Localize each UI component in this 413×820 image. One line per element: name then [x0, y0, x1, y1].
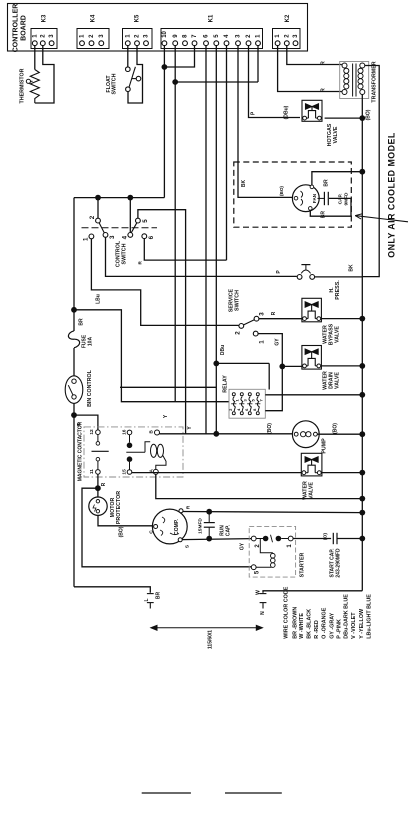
- pump terminal right: [314, 432, 318, 436]
- svg-text:BOARD: BOARD: [21, 15, 28, 41]
- contactor terminal 16: [127, 430, 132, 435]
- svg-text:VALVE: VALVE: [334, 372, 340, 389]
- svg-text:3: 3: [258, 312, 265, 316]
- contactor contact 11-12: [97, 435, 99, 442]
- svg-text:2: 2: [89, 215, 96, 219]
- relay pins and contacts: [232, 393, 235, 396]
- transformer core: [352, 64, 354, 97]
- pump motor body: [292, 421, 319, 448]
- comp windings: [162, 517, 165, 523]
- bin control body: [65, 376, 83, 404]
- wire comp R line: [183, 512, 362, 513]
- node comp R to bus: [359, 510, 365, 516]
- h-press bellows: [301, 270, 310, 273]
- run cap plates: [204, 522, 215, 524]
- svg-text:(O): (O): [323, 533, 329, 540]
- wire K1-1 down: [257, 46, 259, 82]
- svg-text:15: 15: [121, 469, 127, 475]
- wire K2-2 to transformer: [287, 46, 342, 65]
- transformer T1 box: [340, 62, 369, 99]
- float switch contact mid: [136, 76, 141, 81]
- service switch contact 2: [239, 324, 244, 329]
- svg-text:BK -BLACK: BK -BLACK: [307, 609, 313, 639]
- svg-text:5: 5: [142, 219, 149, 223]
- svg-text:4: 4: [121, 235, 128, 239]
- node bypass to bus: [359, 316, 365, 322]
- water drain valve WDV: [302, 346, 322, 370]
- svg-text:BK: BK: [241, 180, 247, 188]
- starter contact dots: [256, 538, 263, 540]
- starter coil: [260, 539, 273, 553]
- wire protector to comp C: [98, 515, 154, 525]
- L terminal break: [147, 593, 154, 595]
- svg-text:N: N: [260, 611, 266, 615]
- svg-text:ONLY AIR COOLED MODEL: ONLY AIR COOLED MODEL: [387, 132, 397, 258]
- svg-text:R: R: [101, 482, 107, 486]
- svg-text:GY: GY: [240, 542, 246, 550]
- wire K1-10 down: [163, 46, 165, 198]
- wire N lead: [263, 591, 362, 593]
- wire to contact 4: [129, 198, 131, 233]
- wire K1-7 jog: [164, 46, 194, 67]
- contactor terminal B: [155, 430, 160, 435]
- right bus from transformer secondary: [361, 95, 363, 591]
- wire relay top right: [268, 363, 270, 389]
- svg-text:(BO): (BO): [332, 423, 338, 434]
- compressor body: [152, 509, 187, 544]
- starter terminal 1: [288, 536, 293, 541]
- wire K1-3 to fan: [238, 46, 294, 198]
- air cooled dashed box: [234, 162, 351, 227]
- run cap leads: [208, 512, 210, 523]
- svg-text:PROTECTOR: PROTECTOR: [116, 491, 122, 524]
- svg-text:10A: 10A: [87, 337, 93, 347]
- power rating arrow: [154, 627, 259, 629]
- footer rule right: [225, 792, 282, 794]
- control switch contact 5: [136, 218, 141, 223]
- wire K3-1 to thermistor: [34, 46, 36, 70]
- svg-text:GY -GRAY: GY -GRAY: [329, 612, 335, 638]
- contactor terminal 15: [127, 470, 132, 475]
- wire L lead: [74, 587, 150, 593]
- svg-text:1: 1: [259, 340, 266, 344]
- wire K5-1 to float switch: [127, 46, 129, 67]
- control switch contact 2: [96, 218, 101, 223]
- svg-text:PUMP: PUMP: [321, 438, 327, 454]
- svg-text:R: R: [271, 311, 277, 315]
- svg-text:THERMISTOR: THERMISTOR: [19, 68, 25, 103]
- svg-text:BR: BR: [155, 592, 161, 600]
- svg-text:K3: K3: [42, 14, 48, 22]
- svg-text:B: B: [149, 430, 155, 434]
- wire K5-2 float loop: [128, 46, 143, 103]
- svg-text:DBu-DARK BLUE: DBu-DARK BLUE: [344, 594, 350, 639]
- wire to contact 2: [97, 198, 99, 219]
- wire hot gas out: [325, 117, 363, 119]
- wire comp S to starter: [182, 539, 251, 540]
- wire service R out: [259, 318, 303, 320]
- control switch blade 2-3: [99, 223, 104, 233]
- svg-text:VALVE: VALVE: [308, 482, 314, 499]
- svg-text:R: R: [320, 61, 326, 65]
- svg-text:CAP.: CAP.: [338, 193, 344, 204]
- wire fan top BR: [312, 172, 362, 185]
- svg-text:(BO): (BO): [365, 109, 371, 120]
- svg-text:BR -BROWN: BR -BROWN: [292, 607, 298, 639]
- svg-text:BIN CONTROL: BIN CONTROL: [87, 369, 93, 407]
- connector K2: [273, 29, 301, 49]
- wire start cap to bus: [337, 538, 362, 540]
- svg-text:RELAY: RELAY: [222, 375, 228, 393]
- svg-text:BR: BR: [321, 211, 327, 219]
- left bus lower: [73, 403, 75, 586]
- wire protector branch left: [82, 488, 251, 567]
- left bus upper: [73, 198, 75, 331]
- comp terminal C: [154, 525, 158, 529]
- wire contact5 branch: [138, 210, 186, 434]
- node B-line pin5: [213, 431, 219, 437]
- svg-text:115/60/1: 115/60/1: [207, 630, 213, 649]
- N terminal break: [260, 593, 267, 595]
- svg-text:TRANSFORMER: TRANSFORMER: [372, 61, 378, 102]
- thermistor R-TH zigzag: [30, 70, 39, 104]
- svg-text:15MFD: 15MFD: [198, 518, 204, 534]
- node pin9 branch: [172, 79, 178, 85]
- svg-text:6: 6: [148, 235, 155, 239]
- svg-text:P -PINK: P -PINK: [337, 619, 343, 639]
- svg-text:(BO): (BO): [267, 423, 273, 434]
- contactor terminal 12: [96, 430, 101, 435]
- node fan top to bus: [359, 169, 365, 175]
- wire pump out: [317, 433, 362, 435]
- node pin10/pin7 junction: [162, 64, 168, 70]
- control switch contact 6: [142, 234, 147, 239]
- node GY branch: [279, 364, 285, 370]
- node relay out to bus: [359, 392, 365, 398]
- svg-text:11: 11: [89, 469, 95, 474]
- bin control blade: [68, 385, 73, 395]
- bin control contact bottom: [72, 395, 76, 399]
- svg-text:(BO): (BO): [118, 526, 124, 537]
- wire coil A to bus: [156, 474, 362, 498]
- h-press contact left: [297, 275, 302, 280]
- wire bin branch to contactor coil: [74, 415, 98, 430]
- svg-text:CONTROLLER: CONTROLLER: [13, 4, 20, 53]
- svg-text:BR: BR: [79, 318, 85, 326]
- svg-text:W -WHITE: W -WHITE: [299, 613, 305, 639]
- svg-text:V -VIOLET: V -VIOLET: [351, 612, 357, 639]
- controller board outline: [8, 4, 308, 52]
- relay feed H1: [120, 386, 216, 388]
- svg-text:K5: K5: [135, 14, 141, 22]
- svg-text:12: 12: [89, 429, 95, 435]
- starter terminal 2: [251, 536, 256, 541]
- wire K1-2 to hot gas valve: [249, 46, 301, 118]
- node control bus right: [127, 195, 133, 201]
- wire pin5 relay branch: [216, 362, 269, 364]
- connector K1: [161, 29, 263, 49]
- wire transformer sec top to right bus: [362, 66, 379, 277]
- start capacitor plates: [332, 533, 334, 544]
- fan terminal bottom: [309, 207, 313, 211]
- svg-text:GY: GY: [274, 338, 280, 346]
- contactor contact 15-16: [129, 435, 131, 443]
- node protector branch: [95, 485, 101, 491]
- svg-text:(BO): (BO): [279, 186, 284, 196]
- svg-text:K2: K2: [285, 14, 291, 22]
- wire K3-2 loop: [35, 46, 54, 103]
- transformer terminals: [342, 63, 347, 68]
- connector K3: [31, 29, 57, 49]
- wire service GY branch: [258, 334, 282, 411]
- water valve WV: [301, 453, 322, 476]
- wire water valve out: [322, 472, 363, 474]
- svg-text:16: 16: [122, 429, 128, 435]
- node control bus left: [95, 195, 101, 201]
- control switch bar: [82, 227, 158, 229]
- svg-text:K1: K1: [209, 14, 215, 22]
- node coil line to bus: [359, 496, 365, 502]
- svg-text:9MFD: 9MFD: [343, 192, 349, 206]
- control switch contact 3: [103, 233, 108, 238]
- wire B to pump BO: [160, 433, 295, 435]
- wire contact1 branch LBu: [91, 239, 238, 326]
- svg-text:(DBu): (DBu): [284, 105, 290, 119]
- control switch contact 4: [128, 233, 133, 238]
- contactor terminal 11: [96, 470, 101, 475]
- svg-text:SWITCH: SWITCH: [112, 73, 118, 94]
- svg-text:243-290MFD: 243-290MFD: [336, 548, 342, 578]
- pump terminal left: [294, 432, 298, 436]
- starter box: [249, 526, 295, 577]
- svg-text:R -RED: R -RED: [314, 620, 320, 639]
- wire 11 to protector: [97, 474, 99, 497]
- svg-text:O -ORANGE: O -ORANGE: [322, 607, 328, 639]
- fan terminal top: [310, 185, 314, 189]
- node pin5 branch: [213, 361, 219, 367]
- service switch contact 1: [253, 331, 258, 336]
- svg-text:2: 2: [234, 331, 241, 335]
- svg-text:5: 5: [251, 399, 256, 402]
- svg-text:CAP.: CAP.: [226, 524, 232, 536]
- node run cap bottom: [206, 536, 212, 542]
- svg-text:C: C: [149, 530, 155, 534]
- magnetic contactor box: [84, 427, 183, 477]
- svg-text:BR: BR: [323, 179, 329, 187]
- control bus wire: [74, 197, 164, 199]
- wire contact6 branch: [144, 239, 226, 261]
- node start cap to bus: [359, 536, 365, 542]
- wire relay right to bus: [265, 394, 362, 396]
- wire drain in: [282, 365, 302, 367]
- float switch contact top: [126, 67, 131, 72]
- svg-text:WIRE COLOR CODE: WIRE COLOR CODE: [284, 586, 290, 639]
- service switch contact 3: [254, 316, 259, 321]
- comp terminal R: [179, 509, 183, 513]
- wire K1-9 down: [174, 46, 176, 402]
- footer rule left: [142, 792, 191, 794]
- bin control contact top: [72, 379, 76, 383]
- node hot gas to bus: [359, 115, 365, 121]
- wire K1-5 down: [215, 46, 217, 434]
- connector K4: [77, 29, 109, 49]
- wire starter 1 to start cap: [293, 538, 331, 540]
- node bin control branch: [71, 412, 77, 418]
- node run cap top: [206, 509, 212, 515]
- svg-text:10: 10: [162, 30, 168, 37]
- svg-text:1: 1: [83, 237, 90, 241]
- svg-text:DBu: DBu: [220, 345, 226, 355]
- relay X1 box: [229, 389, 265, 418]
- transformer secondary coil: [358, 68, 363, 73]
- svg-text:3: 3: [109, 235, 116, 239]
- svg-text:MAGNETIC CONTACTOR: MAGNETIC CONTACTOR: [77, 421, 83, 481]
- pump coil: [301, 432, 306, 437]
- svg-text:SWITCH: SWITCH: [122, 243, 128, 264]
- svg-text:Y -YELLOW: Y -YELLOW: [359, 608, 365, 639]
- svg-text:L: L: [144, 598, 150, 601]
- fan terminal left: [294, 196, 298, 200]
- connector K5: [123, 29, 153, 49]
- svg-text:R: R: [320, 88, 326, 92]
- float switch blade: [129, 67, 135, 87]
- svg-text:BK: BK: [348, 264, 354, 272]
- wire bypass out: [321, 318, 362, 320]
- control switch contact 1: [89, 234, 94, 239]
- contactor terminal A: [153, 469, 158, 474]
- float switch contact bottom: [126, 87, 131, 92]
- fan motor FM body: [292, 185, 319, 212]
- node water valve to bus: [359, 470, 365, 476]
- node drain to bus: [359, 363, 365, 369]
- service switch blade: [244, 320, 255, 325]
- fuse F1: [68, 331, 79, 348]
- comp terminal S: [178, 538, 182, 542]
- arrow to air cooled box: [355, 216, 408, 222]
- svg-text:VALVE: VALVE: [333, 126, 339, 143]
- starter terminal 5: [251, 565, 256, 570]
- control switch blade 4-5: [131, 223, 137, 233]
- left bus mid: [73, 348, 75, 376]
- svg-text:R: R: [186, 505, 192, 509]
- hot gas valve HGV: [302, 100, 322, 121]
- fan capacitor: [323, 192, 325, 205]
- wire fuse branch to relay: [74, 310, 229, 402]
- thermistor bulb: [26, 79, 30, 83]
- h-press contact right: [310, 275, 315, 280]
- svg-text:K4: K4: [91, 14, 97, 22]
- wire K2-1 to transformer: [278, 46, 342, 92]
- svg-text:LBu: LBu: [95, 294, 101, 304]
- node fuse branch: [71, 307, 77, 313]
- wire contact3 branch to H-press: [106, 237, 297, 276]
- motor protector body: [89, 497, 107, 515]
- node pump to bus: [359, 431, 365, 437]
- svg-text:COMP.: COMP.: [174, 519, 180, 535]
- svg-text:W: W: [256, 590, 262, 595]
- motor protector terminal top: [96, 500, 99, 503]
- wire pin9 to pin1 jumper: [175, 81, 258, 83]
- wire drain out: [321, 365, 362, 367]
- svg-text:VALVE: VALVE: [334, 326, 340, 343]
- svg-text:LBu-LIGHT BLUE: LBu-LIGHT BLUE: [366, 594, 372, 639]
- wire K1-6 down: [205, 46, 207, 434]
- transformer primary coil: [344, 68, 349, 73]
- fan windings: [301, 191, 303, 198]
- svg-text:SWITCH: SWITCH: [234, 290, 240, 311]
- svg-text:STARTER: STARTER: [300, 553, 306, 578]
- motor protector element: [93, 505, 96, 512]
- wire 15 to water valve: [132, 472, 302, 474]
- water bypass valve WBV: [302, 298, 322, 322]
- wire K1-4 down: [226, 46, 228, 260]
- svg-text:FAN: FAN: [312, 193, 317, 203]
- wire h-press out BK: [315, 276, 363, 278]
- fan cap lead: [318, 197, 325, 199]
- svg-text:PRESS.: PRESS.: [335, 280, 341, 300]
- contactor coil: [145, 442, 150, 453]
- wire fan bottom BR: [310, 198, 351, 216]
- motor protector terminal bottom: [96, 510, 99, 513]
